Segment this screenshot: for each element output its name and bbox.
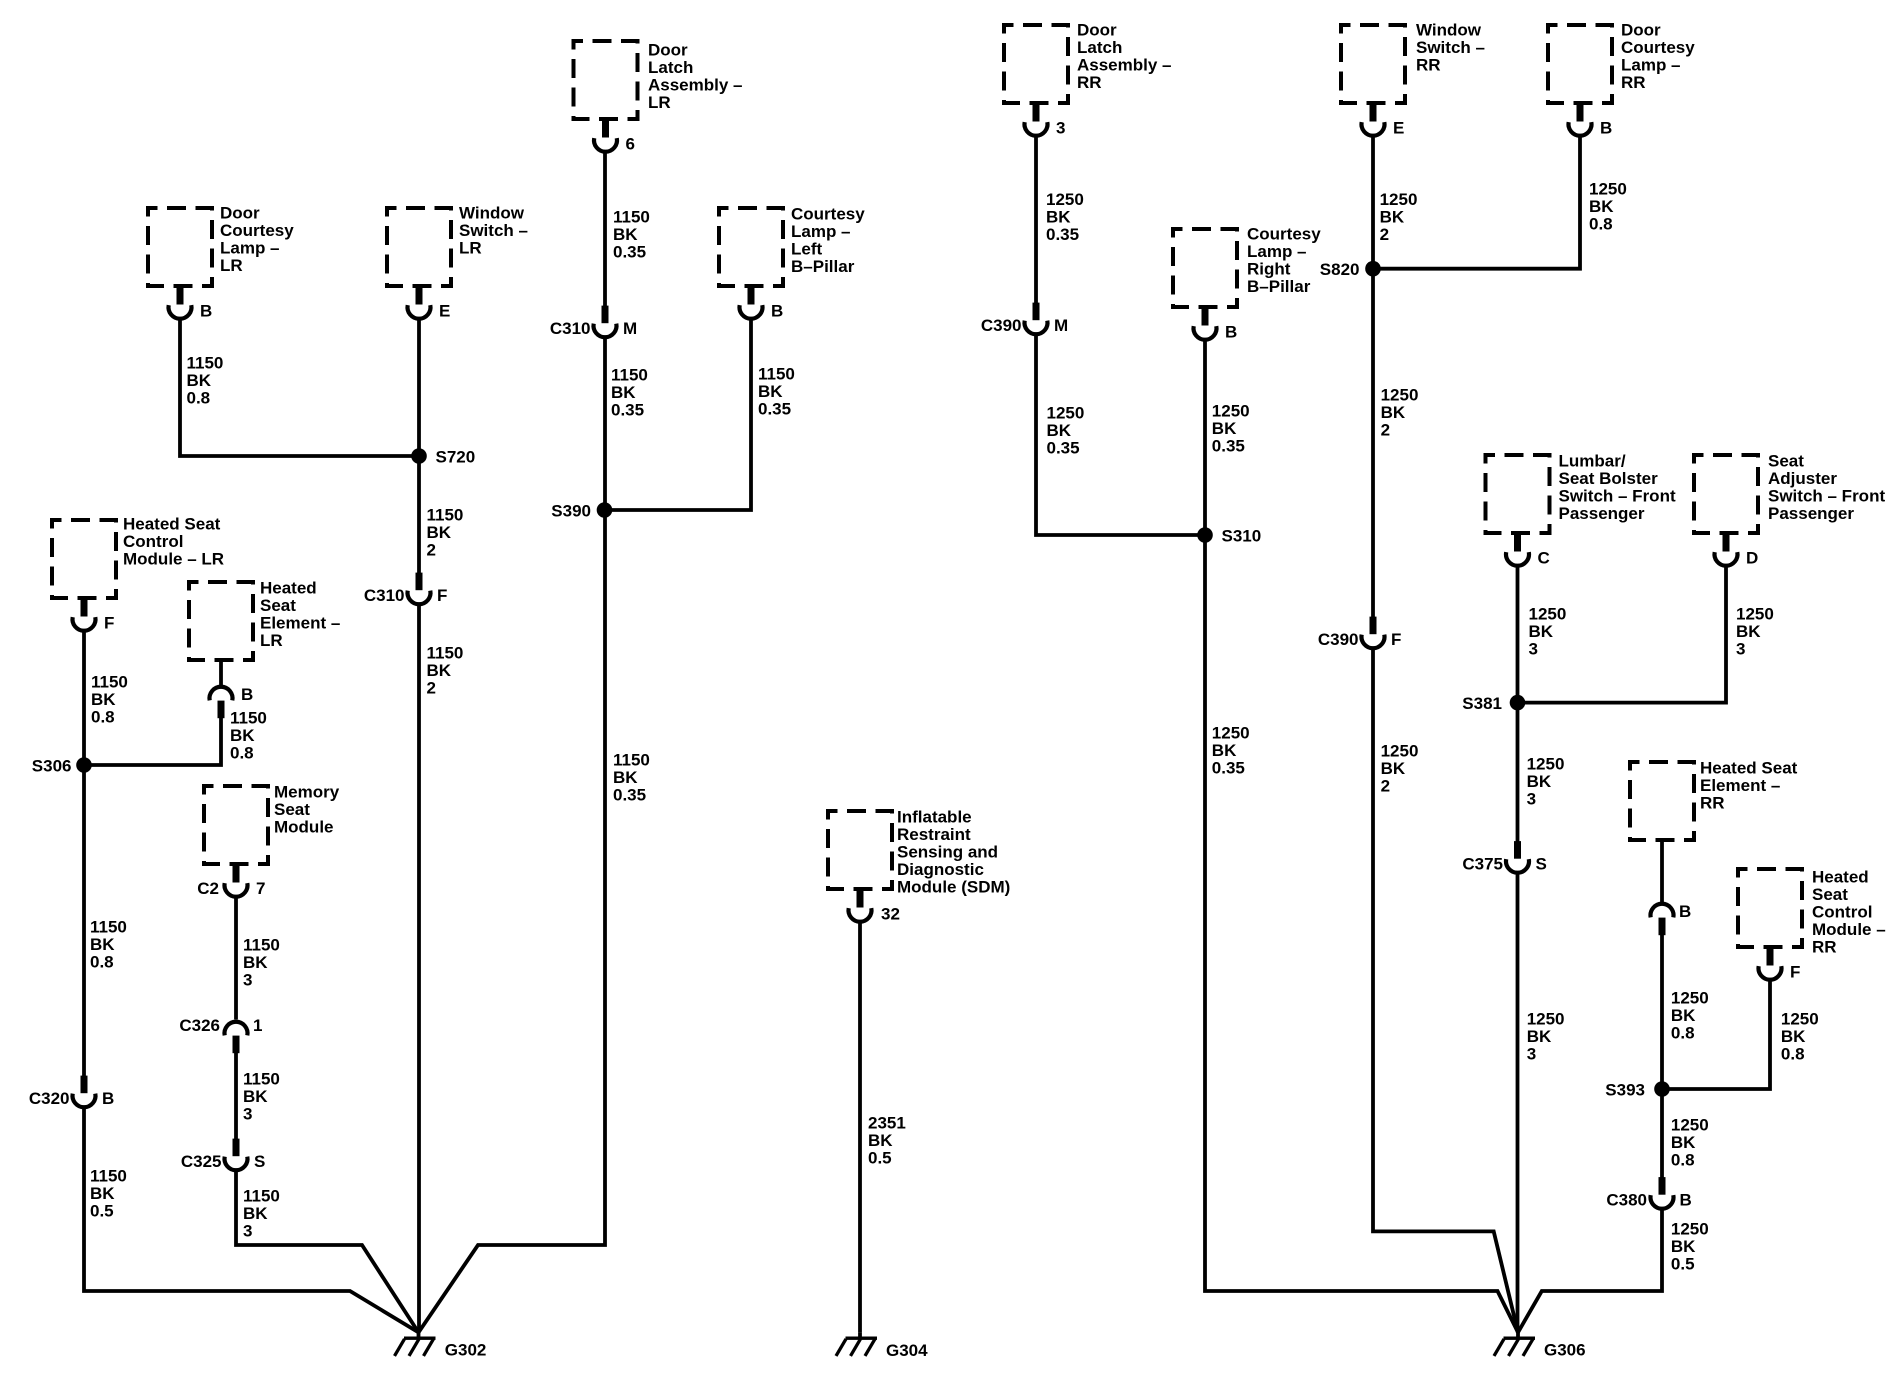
- svg-text:1150: 1150: [427, 644, 464, 663]
- svg-text:BK: BK: [1212, 741, 1237, 760]
- svg-text:LR: LR: [260, 631, 283, 650]
- connector pin C of Lumbar Seat Bolster Switch: [1506, 534, 1550, 568]
- svg-text:Switch –: Switch –: [459, 221, 528, 240]
- svg-text:Seat: Seat: [1768, 452, 1804, 471]
- svg-text:BK: BK: [1381, 759, 1406, 778]
- svg-text:F: F: [437, 586, 447, 605]
- svg-text:Switch –: Switch –: [1416, 38, 1485, 57]
- svg-text:Door: Door: [648, 41, 688, 60]
- svg-text:1150: 1150: [758, 365, 795, 384]
- wire 1250 BK 0.35 from Courtesy Lamp Right B-Pillar through S310 down to G306: [1205, 340, 1518, 1332]
- wire 1150 BK 3 from C325 down to G302: [236, 1171, 419, 1333]
- svg-text:B: B: [102, 1089, 114, 1108]
- svg-text:C390: C390: [1318, 630, 1359, 649]
- svg-text:S: S: [254, 1152, 265, 1171]
- svg-text:C380: C380: [1606, 1191, 1647, 1210]
- svg-text:Seat Bolster: Seat Bolster: [1559, 469, 1659, 488]
- svg-text:F: F: [104, 614, 114, 633]
- svg-text:BK: BK: [90, 1184, 115, 1203]
- svg-text:Restraint: Restraint: [897, 825, 971, 844]
- wire 1150 BK 2 from Window Switch LR through S720 to C310 F: [417, 319, 421, 589]
- svg-text:0.5: 0.5: [90, 1202, 114, 1221]
- wire 1150 BK 0.35 from C310 M through S390 down then to G302: [419, 338, 606, 1333]
- component Memory Seat Module (dashed box): [204, 786, 268, 864]
- svg-text:1250: 1250: [1527, 1010, 1565, 1029]
- svg-text:Seat: Seat: [274, 800, 310, 819]
- wire 1250 BK 0.35 from C390 M to S310: [1036, 335, 1205, 536]
- svg-text:Right: Right: [1247, 260, 1291, 279]
- splice S820: [1320, 260, 1381, 279]
- wire 1250 BK 0.5 from C380 down to G306: [1518, 1209, 1662, 1332]
- svg-text:0.35: 0.35: [1212, 437, 1245, 456]
- svg-text:B: B: [1225, 323, 1237, 342]
- inline connector C375 pin S: [1462, 841, 1546, 873]
- svg-text:LR: LR: [648, 93, 671, 112]
- svg-text:1250: 1250: [1671, 1220, 1709, 1239]
- svg-text:0.35: 0.35: [613, 243, 646, 262]
- svg-text:BK: BK: [1671, 1006, 1696, 1025]
- svg-text:0.35: 0.35: [613, 786, 646, 805]
- svg-text:1250: 1250: [1589, 180, 1627, 199]
- svg-text:BK: BK: [427, 661, 452, 680]
- svg-text:Courtesy: Courtesy: [1621, 38, 1695, 57]
- svg-text:0.35: 0.35: [611, 401, 644, 420]
- svg-text:RR: RR: [1416, 56, 1441, 75]
- svg-text:C390: C390: [981, 316, 1022, 335]
- connector pin 6 of Door Latch Assembly LR: [594, 120, 635, 154]
- svg-text:BK: BK: [1529, 622, 1554, 641]
- svg-text:1150: 1150: [243, 1070, 280, 1089]
- svg-text:C320: C320: [29, 1089, 70, 1108]
- connector pin B of Door Courtesy Lamp RR: [1569, 104, 1613, 138]
- wire 1250 BK 2 from Window Switch RR through S820 to C390 F: [1371, 136, 1375, 633]
- wire 1150 BK 0.35 from Door Latch Assembly LR to C310 M: [603, 152, 607, 322]
- wire 1150 BK 0.8 from Heated Seat Element LR to S306: [84, 716, 221, 765]
- component Heated Seat Control Module - LR (dashed box): [52, 520, 116, 598]
- component Heated Seat Element - RR (dashed box): [1630, 762, 1694, 840]
- svg-text:Seat: Seat: [1812, 885, 1848, 904]
- svg-text:BK: BK: [613, 768, 638, 787]
- svg-text:2: 2: [1381, 421, 1390, 440]
- svg-text:3: 3: [1736, 640, 1745, 659]
- svg-text:S390: S390: [551, 502, 591, 521]
- svg-text:BK: BK: [243, 1087, 268, 1106]
- inline connector C390 pin F: [1318, 617, 1402, 649]
- wire 1250 BK 3 from Lumbar Switch through S381 to C375: [1516, 566, 1520, 857]
- svg-text:1150: 1150: [613, 751, 650, 770]
- svg-text:Latch: Latch: [1077, 38, 1122, 57]
- svg-text:3: 3: [1529, 640, 1538, 659]
- svg-text:Heated Seat: Heated Seat: [123, 515, 221, 534]
- svg-text:1150: 1150: [91, 673, 128, 692]
- svg-text:Assembly –: Assembly –: [648, 76, 743, 95]
- svg-text:C2: C2: [197, 879, 219, 898]
- wire 1250 BK 0.8 from Heated Seat Control Module RR to S393: [1662, 980, 1770, 1089]
- inline connector C310 pin M: [550, 306, 637, 338]
- svg-text:Heated Seat: Heated Seat: [1700, 759, 1798, 778]
- svg-text:1250: 1250: [1380, 190, 1418, 209]
- svg-text:Module – LR: Module – LR: [123, 550, 224, 569]
- svg-text:0.35: 0.35: [1212, 759, 1245, 778]
- connector pin E of Window Switch LR: [408, 287, 451, 321]
- svg-text:Heated: Heated: [260, 579, 317, 598]
- svg-text:2: 2: [1380, 225, 1389, 244]
- svg-text:1250: 1250: [1527, 755, 1565, 774]
- wire 1150 BK 0.8 from Door Courtesy Lamp LR to S720: [180, 319, 419, 456]
- component Lumbar / Seat Bolster Switch - Front Passenger (dashed box): [1486, 455, 1550, 533]
- svg-text:Control: Control: [1812, 903, 1872, 922]
- svg-text:Heated: Heated: [1812, 868, 1869, 887]
- connector pin B of Courtesy Lamp Right B-Pillar: [1194, 308, 1238, 342]
- wire 1250 BK 3 from Seat Adjuster Switch to S381: [1518, 566, 1727, 703]
- component Heated Seat Control Module - RR (dashed box): [1738, 869, 1802, 947]
- svg-text:S393: S393: [1605, 1081, 1645, 1100]
- svg-text:B: B: [241, 685, 253, 704]
- svg-text:1250: 1250: [1529, 605, 1567, 624]
- wire 1150 BK 0.5 from C320 down to G302: [84, 1108, 419, 1333]
- component Heated Seat Element - LR (dashed box): [189, 582, 253, 660]
- svg-text:S381: S381: [1462, 694, 1502, 713]
- connector pin D of Seat Adjuster Switch: [1715, 534, 1759, 568]
- svg-text:1250: 1250: [1736, 605, 1774, 624]
- svg-text:RR: RR: [1700, 794, 1725, 813]
- inline connector C325 pin S: [181, 1139, 265, 1171]
- svg-text:Courtesy: Courtesy: [791, 205, 865, 224]
- inline connector C380 pin B: [1606, 1177, 1691, 1209]
- svg-text:RR: RR: [1077, 73, 1102, 92]
- svg-text:B: B: [1600, 119, 1612, 138]
- svg-text:1150: 1150: [611, 366, 648, 385]
- svg-text:0.8: 0.8: [1589, 215, 1613, 234]
- connector pin 32 of SDM: [849, 890, 900, 924]
- connector pin F of Heated Seat Control Module LR: [73, 599, 115, 633]
- svg-text:M: M: [623, 319, 637, 338]
- svg-text:BK: BK: [187, 371, 212, 390]
- svg-text:Lamp –: Lamp –: [1247, 242, 1307, 261]
- svg-text:Control: Control: [123, 532, 183, 551]
- svg-text:0.35: 0.35: [1047, 439, 1080, 458]
- svg-text:0.5: 0.5: [1671, 1255, 1695, 1274]
- svg-text:C310: C310: [550, 319, 591, 338]
- connector pin B of Courtesy Lamp Left B-Pillar: [740, 287, 784, 321]
- svg-text:BK: BK: [427, 523, 452, 542]
- svg-text:BK: BK: [243, 1204, 268, 1223]
- svg-text:1150: 1150: [243, 936, 280, 955]
- ground G306: [1494, 1332, 1586, 1359]
- svg-text:Lumbar/: Lumbar/: [1559, 452, 1626, 471]
- connector pin B of Door Courtesy Lamp LR: [169, 287, 213, 321]
- svg-text:Assembly –: Assembly –: [1077, 56, 1172, 75]
- svg-text:6: 6: [626, 135, 635, 154]
- svg-text:Diagnostic: Diagnostic: [897, 860, 984, 879]
- svg-text:Door: Door: [1077, 21, 1117, 40]
- svg-text:S: S: [1536, 855, 1547, 874]
- svg-text:2: 2: [427, 679, 436, 698]
- svg-text:0.8: 0.8: [187, 389, 211, 408]
- splice S310: [1197, 527, 1261, 546]
- svg-text:D: D: [1746, 549, 1758, 568]
- svg-text:2: 2: [427, 541, 436, 560]
- component Seat Adjuster Switch - Front Passenger (dashed box): [1694, 455, 1758, 533]
- svg-text:C375: C375: [1462, 855, 1503, 874]
- svg-text:2351: 2351: [868, 1114, 906, 1133]
- svg-text:C326: C326: [179, 1016, 220, 1035]
- svg-text:0.8: 0.8: [1671, 1151, 1695, 1170]
- svg-text:0.35: 0.35: [758, 400, 791, 419]
- svg-text:Window: Window: [1416, 21, 1482, 40]
- ground G302: [395, 1332, 487, 1359]
- svg-text:3: 3: [1056, 119, 1065, 138]
- svg-text:RR: RR: [1621, 73, 1646, 92]
- svg-text:3: 3: [1527, 1045, 1536, 1064]
- svg-text:1: 1: [253, 1016, 262, 1035]
- connector pin 3 of Door Latch Assembly RR: [1025, 104, 1066, 138]
- svg-text:3: 3: [243, 1105, 252, 1124]
- svg-text:1250: 1250: [1671, 989, 1709, 1008]
- svg-text:Seat: Seat: [260, 596, 296, 615]
- component Window Switch - RR (dashed box): [1341, 25, 1405, 103]
- svg-text:Module (SDM): Module (SDM): [897, 878, 1010, 897]
- splice S390: [551, 502, 612, 521]
- svg-text:S306: S306: [32, 757, 72, 776]
- svg-text:0.8: 0.8: [91, 708, 115, 727]
- splice S720: [411, 448, 475, 467]
- svg-text:S310: S310: [1222, 527, 1262, 546]
- svg-text:BK: BK: [1047, 421, 1072, 440]
- svg-text:C325: C325: [181, 1152, 222, 1171]
- splice S393: [1605, 1081, 1670, 1100]
- svg-text:3: 3: [243, 1222, 252, 1241]
- svg-text:BK: BK: [1381, 403, 1406, 422]
- svg-text:1150: 1150: [90, 1167, 127, 1186]
- svg-text:Adjuster: Adjuster: [1768, 469, 1837, 488]
- svg-text:BK: BK: [1046, 208, 1071, 227]
- component Courtesy Lamp - Left B-Pillar (dashed box): [719, 208, 783, 286]
- svg-text:Switch – Front: Switch – Front: [1559, 487, 1676, 506]
- svg-text:M: M: [1054, 316, 1068, 335]
- svg-text:Door: Door: [220, 204, 260, 223]
- svg-text:BK: BK: [1781, 1027, 1806, 1046]
- svg-text:0.5: 0.5: [868, 1149, 892, 1168]
- connector C2 pin 7 of Memory Seat Module: [197, 865, 265, 898]
- svg-text:2: 2: [1381, 777, 1390, 796]
- connector pin B of Heated Seat Element RR (flipped): [1651, 842, 1692, 935]
- svg-text:BK: BK: [1527, 1027, 1552, 1046]
- svg-text:Window: Window: [459, 204, 525, 223]
- svg-text:1250: 1250: [1381, 742, 1419, 761]
- svg-text:BK: BK: [1671, 1133, 1696, 1152]
- svg-text:1150: 1150: [613, 208, 650, 227]
- svg-text:B: B: [771, 302, 783, 321]
- svg-text:0.8: 0.8: [1671, 1024, 1695, 1043]
- svg-text:S820: S820: [1320, 260, 1360, 279]
- inline connector C326 pin 1 (flipped): [179, 1016, 262, 1053]
- svg-text:Door: Door: [1621, 21, 1661, 40]
- svg-text:E: E: [1393, 119, 1404, 138]
- wire 1250 BK 2 from C390 F down to G306: [1373, 649, 1518, 1333]
- svg-text:B: B: [1680, 1191, 1692, 1210]
- inline connector C390 pin M: [981, 303, 1068, 335]
- svg-text:7: 7: [256, 879, 265, 898]
- inline connector C310 pin F: [364, 573, 448, 605]
- svg-text:B–Pillar: B–Pillar: [791, 257, 855, 276]
- component Inflatable Restraint Sensing and Diagnostic Module (SDM) (dashed box): [828, 811, 892, 889]
- svg-text:BK: BK: [1212, 419, 1237, 438]
- svg-text:Inflatable: Inflatable: [897, 808, 972, 827]
- svg-text:Lamp –: Lamp –: [791, 222, 851, 241]
- svg-text:1150: 1150: [187, 354, 224, 373]
- svg-text:Lamp –: Lamp –: [1621, 56, 1681, 75]
- svg-text:1150: 1150: [90, 918, 127, 937]
- svg-text:Latch: Latch: [648, 58, 693, 77]
- svg-text:BK: BK: [90, 935, 115, 954]
- svg-text:1250: 1250: [1047, 404, 1085, 423]
- svg-text:1250: 1250: [1781, 1010, 1819, 1029]
- wire 1250 BK 0.35 from Door Latch Assembly RR to C390 M: [1034, 136, 1038, 319]
- svg-text:Module: Module: [274, 818, 334, 837]
- svg-text:RR: RR: [1812, 938, 1837, 957]
- wire 1150 BK 0.35 from Courtesy Lamp Left B-Pillar to S390: [605, 319, 752, 510]
- svg-text:3: 3: [243, 971, 252, 990]
- svg-text:32: 32: [881, 905, 900, 924]
- component Door Courtesy Lamp - RR (dashed box): [1548, 25, 1612, 103]
- splice S381: [1462, 694, 1525, 713]
- svg-text:G302: G302: [445, 1341, 487, 1360]
- svg-text:E: E: [439, 302, 450, 321]
- svg-text:Switch – Front: Switch – Front: [1768, 487, 1885, 506]
- svg-text:0.8: 0.8: [90, 953, 114, 972]
- svg-text:0.8: 0.8: [1781, 1045, 1805, 1064]
- svg-text:C: C: [1538, 549, 1550, 568]
- svg-text:BK: BK: [243, 953, 268, 972]
- svg-text:LR: LR: [220, 256, 243, 275]
- svg-text:BK: BK: [611, 383, 636, 402]
- wire 1150 BK 3 from Memory Seat Module to C326: [234, 897, 238, 1020]
- svg-text:B–Pillar: B–Pillar: [1247, 277, 1311, 296]
- component Door Latch Assembly - LR (dashed box): [574, 41, 638, 119]
- svg-text:Memory: Memory: [274, 783, 340, 802]
- inline connector C320 pin B: [29, 1076, 114, 1108]
- wire 1150 BK 2 from C310 F down to G302: [417, 605, 421, 1333]
- svg-text:Element –: Element –: [260, 614, 340, 633]
- svg-text:BK: BK: [758, 382, 783, 401]
- svg-text:1250: 1250: [1671, 1116, 1709, 1135]
- svg-text:0.35: 0.35: [1046, 225, 1079, 244]
- svg-text:Module –: Module –: [1812, 920, 1886, 939]
- wire 2351 BK 0.5 from SDM to G304: [858, 922, 862, 1332]
- svg-text:BK: BK: [1736, 622, 1761, 641]
- wire 1150 BK 0.8 from Heated Seat Control Module LR through S306 to C320: [82, 631, 86, 1093]
- svg-text:BK: BK: [1527, 772, 1552, 791]
- wire 1150 BK 3 from C326 to C325: [234, 1036, 238, 1155]
- svg-text:BK: BK: [613, 225, 638, 244]
- svg-text:Sensing and: Sensing and: [897, 843, 998, 862]
- svg-text:1150: 1150: [230, 709, 267, 728]
- svg-text:BK: BK: [1671, 1237, 1696, 1256]
- svg-text:1150: 1150: [243, 1187, 280, 1206]
- component Door Latch Assembly - RR (dashed box): [1004, 25, 1068, 103]
- svg-text:BK: BK: [868, 1131, 893, 1150]
- svg-text:BK: BK: [1589, 197, 1614, 216]
- svg-text:F: F: [1790, 963, 1800, 982]
- svg-text:1250: 1250: [1046, 190, 1084, 209]
- svg-text:B: B: [200, 302, 212, 321]
- svg-text:BK: BK: [91, 690, 116, 709]
- component Window Switch - LR (dashed box): [387, 208, 451, 286]
- svg-text:1250: 1250: [1381, 386, 1419, 405]
- svg-text:C310: C310: [364, 586, 405, 605]
- component Door Courtesy Lamp - LR (dashed box): [148, 208, 212, 286]
- wire 1250 BK 0.8 from Door Courtesy Lamp RR to S820: [1373, 136, 1580, 269]
- svg-text:G306: G306: [1544, 1341, 1586, 1360]
- svg-text:Lamp –: Lamp –: [220, 239, 280, 258]
- wire 1250 BK 0.8 from Heated Seat Element RR through S393 to C380: [1660, 933, 1664, 1191]
- ground G304: [836, 1332, 928, 1360]
- svg-text:Passenger: Passenger: [1768, 504, 1854, 523]
- svg-text:Courtesy: Courtesy: [220, 221, 294, 240]
- svg-text:B: B: [1679, 902, 1691, 921]
- connector pin B of Heated Seat Element LR (flipped): [210, 662, 254, 718]
- splice S306: [32, 757, 92, 776]
- component Courtesy Lamp - Right B-Pillar (dashed box): [1173, 229, 1237, 307]
- connector pin E of Window Switch RR: [1362, 104, 1405, 138]
- svg-text:1250: 1250: [1212, 724, 1250, 743]
- svg-text:Left: Left: [791, 240, 823, 259]
- svg-text:1250: 1250: [1212, 402, 1250, 421]
- svg-text:Passenger: Passenger: [1559, 504, 1645, 523]
- svg-text:Element –: Element –: [1700, 776, 1780, 795]
- svg-text:BK: BK: [230, 726, 255, 745]
- svg-text:S720: S720: [436, 448, 476, 467]
- svg-text:0.8: 0.8: [230, 744, 254, 763]
- svg-text:3: 3: [1527, 790, 1536, 809]
- connector pin F of Heated Seat Control Module RR: [1759, 948, 1801, 982]
- wire 1250 BK 3 from C375 down to G306: [1516, 873, 1520, 1332]
- svg-text:F: F: [1391, 630, 1401, 649]
- svg-text:G304: G304: [886, 1341, 928, 1360]
- svg-text:Courtesy: Courtesy: [1247, 225, 1321, 244]
- svg-text:LR: LR: [459, 239, 482, 258]
- svg-text:BK: BK: [1380, 208, 1405, 227]
- svg-text:1150: 1150: [427, 506, 464, 525]
